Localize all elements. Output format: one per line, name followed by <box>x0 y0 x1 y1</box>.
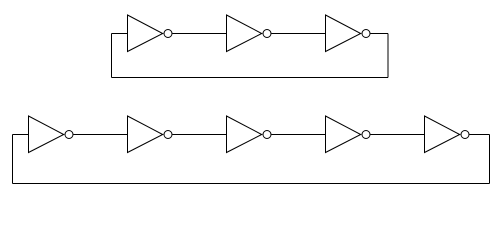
inverter U2 <box>227 15 272 52</box>
wire U4 input <box>13 134 29 136</box>
wire U7 to U8 <box>371 134 425 136</box>
wire U1 to U2 <box>173 33 227 35</box>
inverter U4 <box>29 116 74 153</box>
wire feedback bottom rail (3-stage ring) <box>112 77 389 79</box>
wire U5 to U6 <box>173 134 227 136</box>
wire feedback right side (5-stage ring) <box>489 135 491 184</box>
inverter U7 <box>326 116 371 153</box>
wire feedback right side (3-stage ring) <box>387 34 389 78</box>
inverter U8 <box>425 116 470 153</box>
inverter U6 <box>227 116 272 153</box>
inverter U5 <box>128 116 173 153</box>
inverter U3 <box>326 15 371 52</box>
wire U6 to U7 <box>272 134 326 136</box>
inverter U1 <box>128 15 173 52</box>
wire U3 output <box>371 33 389 35</box>
wire feedback bottom rail (5-stage ring) <box>13 183 490 185</box>
wire feedback left side (3-stage ring) <box>111 34 113 78</box>
wire U4 to U5 <box>74 134 128 136</box>
wire U8 output <box>470 134 490 136</box>
wire U1 input <box>112 33 128 35</box>
wire feedback left side (5-stage ring) <box>12 135 14 184</box>
wire U2 to U3 <box>272 33 326 35</box>
